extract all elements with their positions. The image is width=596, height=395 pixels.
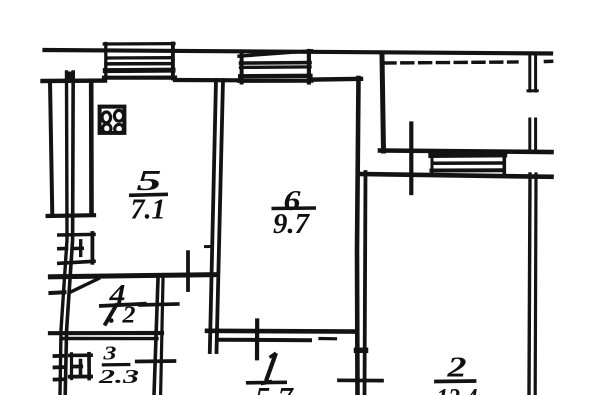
kitchen bottom wall [50, 275, 215, 277]
wall between balcony and room 2, bottom line [361, 174, 552, 177]
room 6 bottom wall upper line [207, 328, 356, 333]
svg-text:7.1: 7.1 [131, 195, 166, 226]
kitchen door jamb tick [186, 252, 190, 290]
entry box A inner tick horizontal [73, 247, 83, 251]
room 1 label number drawn strokes [261, 353, 276, 384]
svg-text:12.4: 12.4 [437, 383, 478, 395]
room 1 door jamb tick [255, 321, 259, 359]
bathroom top wall line 1 [50, 331, 162, 335]
svg-text:2: 2 [121, 303, 135, 329]
wall between rooms 5 and 6 stroke A [210, 80, 216, 352]
room 5 fraction bar [129, 194, 168, 195]
wall 6/2 joint blob [357, 348, 366, 354]
bathroom box B tick vertical [79, 361, 83, 375]
left wall tick y292 [50, 290, 64, 295]
dash fragment right of balcony [546, 59, 552, 63]
entry box A bottom [59, 261, 94, 263]
left wall tick y248 [59, 247, 67, 251]
kitchen left wall [89, 82, 94, 214]
entrance door leaf diagonal [70, 279, 99, 293]
room 6 fraction bar [272, 206, 317, 210]
svg-text:5.7: 5.7 [255, 383, 294, 395]
balcony door jamb tick [409, 124, 413, 194]
wall top inner face right segment [311, 77, 361, 82]
small tick on wall 5/6 [206, 245, 213, 248]
main wall top stub blob [65, 72, 74, 82]
room 6 bottom wall lower dash [320, 337, 336, 340]
wall between room 6 and room 2 outer face [365, 172, 366, 395]
svg-text:3: 3 [102, 343, 116, 365]
entry box A top tick [59, 233, 94, 237]
main left wall stroke A [60, 72, 67, 395]
wall top inner face between windows [175, 78, 240, 83]
bathroom box B bottom [70, 375, 91, 379]
svg-text:9.7: 9.7 [273, 208, 310, 240]
entry box A right edge [91, 233, 95, 263]
wall between rooms 5 and 6 stroke B [217, 80, 224, 352]
wall top inner face left segment [43, 78, 106, 83]
wall top outer face [45, 50, 552, 54]
balcony left wall face [382, 56, 384, 152]
bathroom box B tick horizontal [73, 364, 81, 368]
bathroom box B left [70, 354, 73, 379]
left wall tick y356 [55, 354, 65, 358]
room 2 fraction bar [434, 379, 476, 383]
window W1 (kitchen window) [104, 44, 175, 79]
room 6 bottom wall lower line [219, 338, 310, 343]
room 2 door jamb tick [339, 378, 382, 382]
bathroom door tick [137, 359, 175, 363]
main left wall stroke B [65, 72, 73, 395]
left wall tick y379 [55, 377, 63, 381]
room 4 area 1.2 drawn strokes [105, 303, 136, 329]
window W3 (room 2 balcony window) [432, 152, 505, 173]
left niche bottom closing line [48, 213, 94, 218]
room 1 fraction bar [246, 380, 287, 384]
toilet door tick [140, 304, 178, 305]
svg-text:5: 5 [137, 165, 162, 197]
svg-text:2.3: 2.3 [97, 366, 139, 388]
balcony right window frame lower [530, 119, 536, 150]
window W2 (room 6 window) [239, 51, 312, 83]
stove [100, 107, 125, 134]
right outer wall of room 2 [529, 174, 536, 395]
left outer wall face [50, 81, 52, 216]
wall between hall and room 1 stroke A [154, 279, 158, 395]
room 4 fraction bar [99, 304, 147, 306]
balcony right window frame upper [528, 55, 537, 91]
svg-text:2: 2 [446, 353, 466, 384]
wall between balcony and room 2, top line [380, 151, 552, 153]
bathroom box B right [87, 354, 91, 379]
bathroom box B top [70, 353, 91, 357]
room 3 fraction bar [102, 363, 131, 367]
left wall tick y367 [55, 365, 64, 369]
wall between hall and room 1 stroke B [161, 279, 163, 395]
entry box A inner tick vertical [79, 241, 82, 256]
dashed balcony boundary [384, 62, 517, 63]
bathroom top wall line 2 [64, 337, 158, 341]
wall between room 6 and room 2 inner face [357, 78, 359, 395]
